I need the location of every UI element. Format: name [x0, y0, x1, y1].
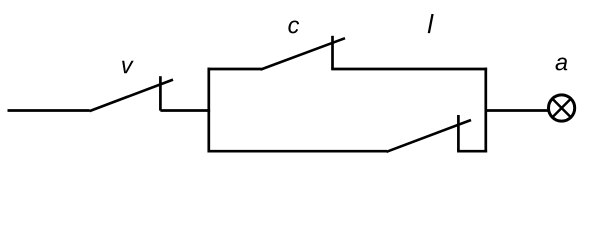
switch C contact tick — [331, 36, 334, 69]
wire top branch right — [331, 68, 487, 71]
lamp A cross — [552, 99, 570, 117]
label l — [428, 14, 434, 33]
wire top branch left — [208, 68, 262, 71]
switch L contact tick — [457, 115, 460, 151]
label a — [556, 58, 568, 71]
label v — [122, 61, 134, 73]
lamp A circle — [549, 95, 575, 121]
switch C blade — [261, 38, 346, 69]
node left rail — [207, 68, 210, 153]
wire input left — [8, 109, 90, 112]
wire to lamp — [486, 109, 548, 112]
wire bottom branch left — [208, 150, 388, 153]
wire bottom branch right — [457, 150, 487, 153]
node right rail — [484, 68, 487, 153]
wire V to left rail — [160, 109, 210, 112]
label c — [288, 20, 299, 33]
switch V blade — [90, 80, 174, 112]
switch L blade — [387, 120, 472, 152]
switch V contact tick — [159, 76, 162, 110]
